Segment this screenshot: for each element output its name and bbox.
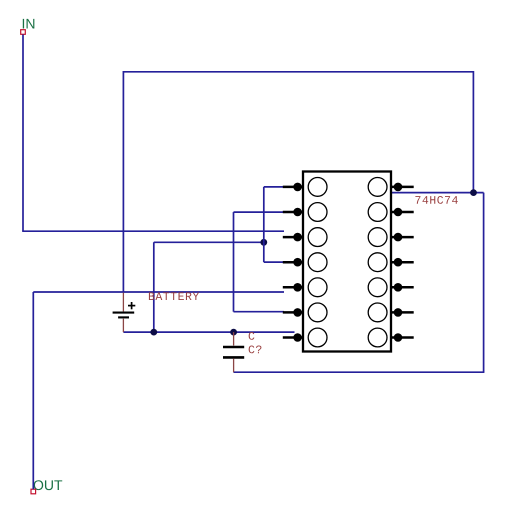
battery BATTERY <box>113 293 136 333</box>
terminal pin OUT <box>31 489 36 494</box>
node junction capacitor top <box>230 329 237 336</box>
IC left pin connection dots <box>293 183 302 342</box>
wire mid horizontal y242 <box>154 241 264 243</box>
capacitor net label C <box>249 332 255 340</box>
wire IN vertical <box>22 35 24 232</box>
wire bottom horizontal <box>234 371 485 373</box>
op IC U1 74HC74 body <box>303 172 391 352</box>
wire right vertical <box>483 193 485 373</box>
IC left pin stubs with dots pins 1-7 <box>283 187 303 338</box>
wire top-left vertical down to battery top <box>122 71 124 293</box>
terminal pin IN <box>21 30 26 35</box>
wire from IC right edge to right vertical <box>391 192 484 194</box>
node junction on pin1-pin4 bracket <box>260 239 267 246</box>
capacitor C? <box>223 332 244 372</box>
IC right pin connection dots <box>394 183 403 342</box>
node junction right <box>470 189 477 196</box>
wire top-right vertical down to node <box>472 71 474 193</box>
wire to pin 4 <box>264 261 287 263</box>
terminal label OUT <box>34 480 63 490</box>
wire to pin 1 <box>264 186 295 188</box>
wire bracket vertical pin2-pin6 <box>233 212 235 312</box>
wire bracket vertical pin1-pin4 <box>263 187 265 262</box>
wire battery bottom to pin 7 <box>123 331 294 333</box>
wire to pin 6 <box>234 311 285 313</box>
wire top horizontal <box>123 71 473 73</box>
wire mid vertical x154 <box>153 242 155 332</box>
IC pin circles left column <box>308 178 327 347</box>
wire OUT horizontal to pin 5 area <box>33 291 284 293</box>
IC pin circles right column <box>368 178 387 347</box>
node junction battery bottom <box>150 329 157 336</box>
capacitor ref label C? <box>249 346 262 354</box>
wire IN horizontal to pin 3 area <box>22 230 284 232</box>
wire OUT vertical <box>32 292 34 489</box>
terminal label IN <box>23 19 35 29</box>
wire to pin 2 <box>234 211 295 213</box>
IC right pin stubs with dots pins 8-14 <box>392 187 414 338</box>
IC label 74HC74 <box>415 196 457 204</box>
battery label <box>149 292 199 300</box>
